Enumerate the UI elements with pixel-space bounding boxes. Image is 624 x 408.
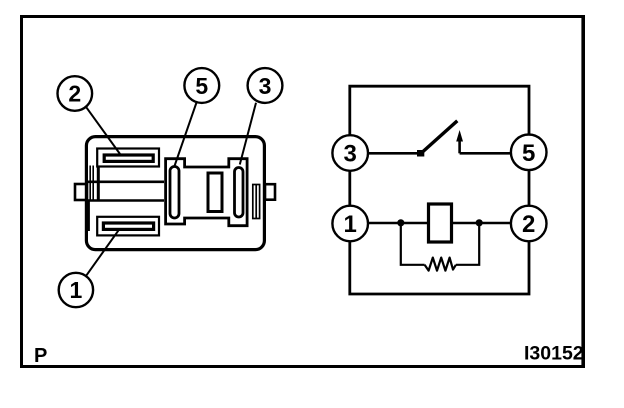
svg-text:1: 1 (344, 211, 357, 238)
leader line 2 (86, 107, 120, 154)
terminal 5 slot (170, 167, 179, 219)
terminal 1 slot outer (97, 217, 159, 236)
housing key vertical ribs (89, 166, 91, 201)
relay housing body (86, 137, 264, 250)
junction dot right (476, 219, 483, 226)
wire: node 3 to node 1 (348, 171, 351, 207)
relay coil (429, 204, 452, 242)
svg-text:P: P (34, 345, 47, 367)
terminal 2 slot outer (97, 149, 159, 167)
wire: schematic bottom (350, 241, 529, 294)
svg-text:3: 3 (259, 73, 272, 99)
wire: resistor branch right (456, 223, 479, 265)
node 5 (511, 135, 547, 171)
resistor (425, 258, 456, 271)
right key slot (253, 185, 260, 219)
leader line 3 (240, 103, 256, 165)
svg-text:1: 1 (70, 277, 83, 303)
center slot (208, 173, 222, 212)
wire: node 1 to coil (368, 222, 427, 225)
svg-text:5: 5 (195, 73, 208, 99)
node 1 (332, 206, 368, 242)
terminal 1 slot inner (103, 223, 153, 229)
switch arrow (458, 139, 461, 153)
wire: node 3 to switch contact (368, 152, 421, 155)
svg-text:I30152: I30152 (524, 342, 584, 364)
leader line 1 (86, 230, 119, 276)
center terminal block outline (166, 159, 248, 226)
switch contact dot (417, 150, 424, 157)
svg-text:5: 5 (522, 140, 535, 167)
right mounting tab (265, 184, 275, 200)
wire: resistor branch left (401, 223, 425, 265)
wire: switch to node 5 (460, 152, 511, 155)
svg-text:3: 3 (344, 141, 357, 168)
junction dot left (397, 219, 404, 226)
label circle 2 (58, 76, 93, 111)
node 3 (332, 135, 368, 171)
label circle 5 (184, 68, 219, 103)
svg-text:2: 2 (522, 211, 535, 238)
wire: coil to node 2 (452, 222, 511, 225)
label circle 3 (248, 68, 283, 103)
leader line 5 (175, 103, 197, 167)
wire: schematic top (350, 86, 529, 135)
svg-text:2: 2 (68, 81, 81, 107)
node 2 (511, 206, 547, 242)
housing key channel lines (87, 181, 165, 184)
left mounting tab (75, 184, 87, 200)
label circle 1 (59, 273, 93, 307)
wire: node 5 to node 2 (528, 170, 531, 206)
terminal 2 slot inner (104, 155, 153, 161)
switch blade (421, 121, 458, 154)
terminal 3 slot (235, 168, 244, 218)
